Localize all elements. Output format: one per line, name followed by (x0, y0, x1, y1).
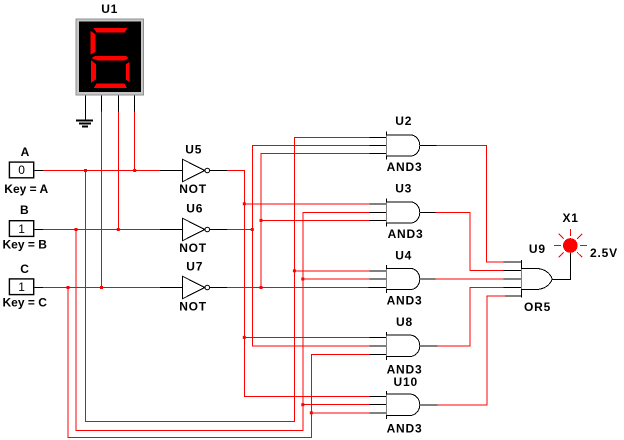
wire U10 output to OR5 input 5 (red) (438, 296, 505, 405)
wire display pin1 to ground (black) (85, 95, 87, 121)
wire B row switch stub (black) (34, 229, 43, 231)
junction U7 output row to C-bar vertical (260, 286, 263, 289)
AND gate output stubs (black) (420, 146, 437, 405)
wire B row (red, switch B to U6 input) (43, 229, 160, 231)
wire net A direct (red): branch down, bottom rail, up to U2 top input (85, 138, 369, 422)
wire net A branch to U4 top input (red) (294, 270, 369, 272)
wire net B-bar vertical with U2 middle and U8 middle branches (red) (252, 146, 369, 347)
svg-text:2.5V: 2.5V (590, 246, 618, 260)
wire display pin3 stub (black) (117, 95, 119, 112)
wire U6 output stub (black) (210, 229, 227, 231)
svg-text:U7: U7 (186, 260, 203, 274)
svg-text:1: 1 (18, 280, 25, 294)
svg-text:NOT: NOT (179, 299, 207, 313)
wire U3 output to OR5 input 2 (red) (435, 213, 503, 271)
junction A net to U4 top input (293, 269, 296, 272)
AND3 gate U8 (387, 332, 420, 360)
junction A-bar to U3 top input (243, 202, 246, 205)
segment D (bottom) (94, 83, 127, 88)
segment G (middle) (92, 56, 129, 60)
switch A (9, 162, 33, 178)
svg-text:AND3: AND3 (387, 422, 423, 436)
svg-text:X1: X1 (563, 211, 579, 225)
wire display pin2 to C row (red) (101, 112, 103, 288)
AND3 gate U10 (387, 391, 420, 419)
svg-text:Key = C: Key = C (3, 296, 48, 310)
switch B (9, 221, 33, 237)
svg-text:1: 1 (18, 222, 25, 236)
AND3 gate U3 (387, 199, 420, 227)
svg-text:A: A (21, 145, 30, 159)
wire net B-bar U6 output (red) (227, 229, 252, 231)
svg-text:OR5: OR5 (524, 300, 551, 314)
svg-text:U1: U1 (101, 2, 118, 16)
junction U6 output to B-bar vertical (251, 228, 254, 231)
OR5 gate U9 (522, 260, 553, 298)
junction B net to U4 middle input (301, 278, 304, 281)
seven-segment display U1 (76, 19, 143, 95)
switch C (9, 279, 33, 295)
segment E (bottom-left) (91, 60, 96, 83)
wire display pin4 stub (black) (134, 95, 136, 112)
junction C-bar to U3 bottom input (260, 219, 263, 222)
wire U2 output to OR5 input 1 (red) (437, 146, 504, 263)
wire A row switch stub (black) (34, 170, 43, 172)
wire U5 input stub (black) (160, 170, 182, 172)
wire U7 output stub (black) (210, 287, 227, 289)
lamp X1 (554, 229, 587, 257)
svg-text:U2: U2 (395, 114, 412, 128)
wire net C-bar vertical to U2 bottom input (red) (261, 153, 370, 287)
segment C (bottom-right) (126, 62, 130, 82)
junction B row to display pin 3 (117, 228, 120, 231)
junction A-bar to U8 top input (243, 336, 246, 339)
wire U6 input stub (black) (160, 229, 182, 231)
wire U4 output to OR5 input 3 (red) (435, 278, 503, 280)
svg-text:B: B (20, 203, 29, 217)
OR5 input stubs (black) (504, 262, 522, 296)
wire net A-bar branch to U3 top input (red) (244, 203, 369, 205)
NOT gate U6 (182, 218, 209, 241)
junction C net to U10 bottom input (310, 411, 313, 414)
svg-text:NOT: NOT (179, 182, 207, 196)
AND3 gate U2 (387, 132, 420, 160)
wire C row switch stub (black) (34, 287, 43, 289)
svg-text:AND3: AND3 (388, 227, 424, 241)
svg-text:U5: U5 (185, 142, 202, 156)
svg-text:U6: U6 (186, 201, 203, 215)
wire net B branch to U10 middle input (red) (303, 404, 370, 406)
ground (76, 121, 93, 127)
junction B net to U10 middle input (301, 403, 304, 406)
svg-text:NOT: NOT (179, 241, 207, 255)
wire U7 input stub (black) (160, 287, 182, 289)
svg-text:AND3: AND3 (387, 294, 423, 308)
svg-text:Key = A: Key = A (4, 182, 48, 196)
svg-text:0: 0 (18, 163, 25, 177)
svg-text:U10: U10 (394, 375, 418, 389)
wire display pin2 stub (black) (101, 95, 103, 112)
svg-text:U4: U4 (395, 249, 412, 263)
NOT gate U5 (182, 159, 209, 182)
junction A row to display pin 4 (133, 169, 136, 172)
svg-text:Key = B: Key = B (3, 238, 48, 252)
wire A row (red, switch A to U5 input) (43, 170, 160, 172)
NOT gate U7 (182, 276, 209, 299)
wire U5 output stub (black) (210, 170, 227, 172)
svg-text:U8: U8 (396, 315, 413, 329)
svg-text:C: C (20, 262, 29, 276)
wire C row (red, switch C to U7 input) (43, 287, 160, 289)
segment A (top) (93, 28, 127, 33)
svg-text:U3: U3 (395, 182, 412, 196)
wire net C-bar branch to U3 bottom input (red) (261, 219, 370, 221)
wire display pin4 to A row (red) (134, 112, 136, 171)
AND gate input stubs (black) (369, 138, 387, 413)
wire net A-bar branch to U8 top input (red) (244, 336, 369, 338)
wire net C branch to U10 bottom input (red) (311, 412, 369, 414)
wire net C direct (red): branch down, bottom rail, up to U8 bottom input (68, 288, 370, 438)
wire display pin3 to B row (red) (117, 112, 119, 230)
wire U8 output to OR5 input 4 (red) (438, 288, 504, 346)
junction C row to C-branch (67, 286, 70, 289)
svg-text:U9: U9 (529, 242, 546, 256)
AND3 gate U4 (387, 265, 420, 293)
junction C row to display pin 2 (100, 286, 103, 289)
svg-text:AND3: AND3 (387, 160, 423, 174)
wire OR5 output to lamp X1 (black) (552, 253, 570, 280)
wire net B direct (red): branch down, bottom rail, up to U3 middle input (76, 213, 370, 431)
wire net C-bar U7 output row to U4 bottom input (red) (227, 287, 369, 289)
segment F (top-left) (91, 31, 96, 55)
wire net A-bar U5 output (red): right, down, to U10 top input (227, 171, 370, 397)
junction A row to A-branch (84, 169, 87, 172)
wire net B branch to U4 middle input (red) (303, 278, 370, 280)
junction B row to B-branch (75, 228, 78, 231)
